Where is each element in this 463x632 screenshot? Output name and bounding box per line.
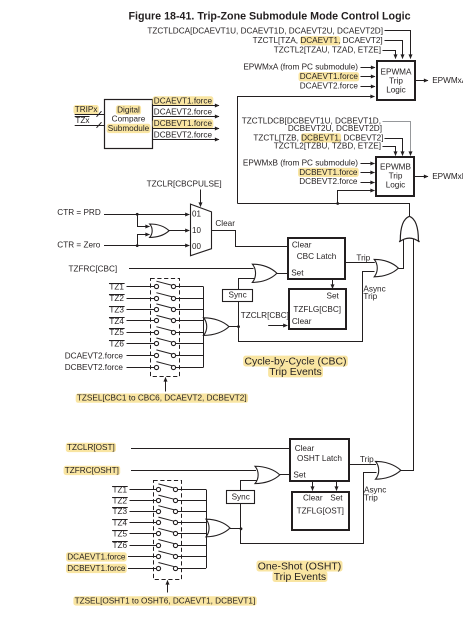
wire TZ3 to switch <box>130 511 157 513</box>
wire DCBEVT2.force input <box>361 182 375 184</box>
wire TZSEL select arrow OST <box>167 581 169 593</box>
EPWMB Trip Logic block <box>376 157 414 196</box>
wire OST OR input bus <box>206 490 208 569</box>
svg-text:One-Shot (OSHT): One-Shot (OSHT) <box>258 561 342 572</box>
svg-text:TZ4: TZ4 <box>109 317 124 326</box>
svg-text:Clear: Clear <box>292 317 312 326</box>
svg-text:EPWMA: EPWMA <box>381 67 412 76</box>
svg-text:Trip: Trip <box>360 455 374 464</box>
svg-text:EPWMxB (from PC submodule): EPWMxB (from PC submodule) <box>243 158 358 167</box>
svg-text:TZCTL2[TZAU, TZAD, ETZE]: TZCTL2[TZAU, TZAD, ETZE] <box>274 46 381 55</box>
net TRIPx label <box>74 105 99 114</box>
net DCAEVT1.force label <box>299 72 360 81</box>
wire DCBEVT2.force output <box>152 139 219 141</box>
or-gate CBC set <box>252 264 277 282</box>
wire TZ4 to switch <box>127 320 155 322</box>
net TZSEL[CBC] label <box>76 394 248 403</box>
mux CBC clear select <box>191 204 212 256</box>
svg-text:Trip Events: Trip Events <box>269 367 321 378</box>
svg-text:Clear: Clear <box>303 493 323 502</box>
junction CBC async branch <box>237 325 240 328</box>
switch OSHT7 <box>156 554 160 558</box>
switch CBC7 <box>154 353 158 357</box>
net DCAEVT1.force output label <box>153 96 214 105</box>
svg-text:Set: Set <box>293 470 306 479</box>
svg-text:Set: Set <box>330 493 343 502</box>
wire main OR output to trip logic <box>238 204 410 217</box>
wire switch CBC5 to OR bus <box>176 332 204 334</box>
switch bank CBC (dashed) <box>151 279 180 377</box>
wire EPWMxB input <box>361 163 375 165</box>
wire switch CBC1 to OR bus <box>176 286 204 288</box>
svg-text:Submodule: Submodule <box>108 124 150 133</box>
wire TZ6 to switch <box>130 545 157 547</box>
wire TZ3 to switch <box>127 309 155 311</box>
wire EPWMxA input <box>361 67 376 69</box>
wire set OR output to CBC latch set <box>277 273 288 275</box>
switch CBC1 <box>154 284 158 288</box>
svg-text:DCAEVT1.force: DCAEVT1.force <box>300 72 359 81</box>
Sync block OST <box>227 491 255 504</box>
or-gate OST async trip <box>376 461 401 479</box>
wire EPWMxA output <box>415 80 428 82</box>
svg-text:TZSEL[OSHT1 to OSHT6, DCAEVT1,: TZSEL[OSHT1 to OSHT6, DCAEVT1, DCBEVT1] <box>75 596 256 605</box>
or-gate CBC async trip <box>374 259 398 276</box>
wire TZ5 to switch <box>130 533 157 535</box>
wire sync to set OR input <box>239 279 255 290</box>
net TZCTL[TZA] label <box>300 36 340 45</box>
Digital Compare Submodule block <box>105 100 153 149</box>
svg-text:TZCLR[OST]: TZCLR[OST] <box>67 443 115 452</box>
svg-text:Logic: Logic <box>386 85 406 94</box>
svg-text:DCBEVT1.force: DCBEVT1.force <box>154 119 213 128</box>
svg-text:Trip: Trip <box>356 254 370 263</box>
svg-text:DCAEVT1.force: DCAEVT1.force <box>67 552 126 561</box>
wire OSHT latch to TZFLG clear <box>312 482 314 491</box>
net DCBEVT1.force OST input <box>66 564 127 573</box>
svg-text:TZx: TZx <box>75 116 89 125</box>
or-gate CBC switch combine <box>204 318 230 336</box>
svg-text:Trip Events: Trip Events <box>274 572 326 583</box>
wire TZCTL to EPWMA trip logic <box>385 41 403 59</box>
svg-text:EPWMxA (from PC submodule): EPWMxA (from PC submodule) <box>243 63 358 72</box>
net TZCTL[TZB] label <box>301 133 341 142</box>
switch OSHT5 <box>156 531 160 535</box>
Sync block CBC <box>223 290 253 302</box>
wire OR output to mux input 10 <box>169 230 189 232</box>
switch OSHT4 <box>156 520 160 524</box>
svg-text:TZSEL[CBC1 to CBC6, DCAEVT2, D: TZSEL[CBC1 to CBC6, DCAEVT2, DCBEVT2] <box>77 394 247 403</box>
wire CTR=PRD to mux input 01 <box>104 214 189 216</box>
svg-text:10: 10 <box>192 226 201 235</box>
junction CTR=PRD branch <box>136 213 139 216</box>
wire TZ6 to switch <box>127 343 155 345</box>
switch OSHT8 <box>156 566 160 570</box>
wire switch OR output <box>229 326 239 328</box>
wire EPWMxB output <box>415 176 429 178</box>
wire TZFRC[CBC] to set OR gate <box>129 268 254 270</box>
wire switch CBC4 to OR bus <box>176 320 204 322</box>
wire async trip into EPWMB <box>338 191 375 204</box>
wire DCBEVT1.force output <box>152 128 219 130</box>
svg-text:Sync: Sync <box>228 291 246 300</box>
wire switch CBC2 to OR bus <box>176 298 204 300</box>
svg-text:CTR = Zero: CTR = Zero <box>57 240 100 249</box>
svg-text:DCAEVT2.force: DCAEVT2.force <box>300 82 359 91</box>
svg-text:DCBEVT2.force: DCBEVT2.force <box>65 363 124 372</box>
svg-text:Clear: Clear <box>295 444 315 453</box>
svg-text:TZCTL2[TZBU, TZBD, ETZE]: TZCTL2[TZBU, TZBD, ETZE] <box>274 141 381 150</box>
svg-text:TZ5: TZ5 <box>109 328 124 337</box>
svg-text:Trip: Trip <box>363 292 377 301</box>
wire switch OSHT1 to OR bus <box>178 489 206 491</box>
wire TZCTLDCA to EPWMA trip logic <box>385 31 411 59</box>
wire DCBEVT2.force to switch <box>127 367 155 369</box>
svg-text:DCAEVT2.force: DCAEVT2.force <box>65 351 124 360</box>
svg-text:TZCLR[CBC]: TZCLR[CBC] <box>241 311 289 320</box>
svg-text:Trip: Trip <box>389 172 403 181</box>
svg-text:EPWMB: EPWMB <box>380 163 411 172</box>
svg-text:DCBEVT2.force: DCBEVT2.force <box>299 177 358 186</box>
wire DCAEVT1.force to switch <box>128 556 156 558</box>
wire TZx bus into digital compare <box>75 125 105 127</box>
svg-text:01: 01 <box>192 210 201 219</box>
wire CBC async path to async OR <box>239 272 375 342</box>
wire switch CBC7 to OR bus <box>176 355 204 357</box>
svg-text:TZFLG[OST]: TZFLG[OST] <box>297 506 344 515</box>
wire TZCTL to EPWMB trip logic <box>385 139 403 156</box>
wire switch CBC8 to OR bus <box>176 367 204 369</box>
wire OST switch OR output <box>230 528 241 530</box>
wire switch OSHT8 to OR bus <box>178 568 206 570</box>
svg-text:Digital: Digital <box>117 105 140 114</box>
switch CBC8 <box>154 365 158 369</box>
OSHT latch block <box>290 439 349 481</box>
net One-Shot caption <box>257 561 343 572</box>
svg-text:TZCLR[CBCPULSE]: TZCLR[CBCPULSE] <box>147 180 222 189</box>
wire TRIPx bus into digital compare <box>75 114 105 116</box>
wire CTR=Zero to OR gate <box>138 235 150 246</box>
switch CBC4 <box>154 318 158 322</box>
wire sync to OST set OR input <box>241 481 257 491</box>
wire OST async path to async OR <box>241 473 377 544</box>
wire DCAEVT1.force input <box>361 76 376 78</box>
svg-text:00: 00 <box>192 242 201 251</box>
TZFLG[CBC] flag block <box>289 289 346 329</box>
wire sync input from OST switch OR <box>240 503 242 528</box>
or-gate OST set <box>255 466 280 483</box>
wire OSHT latch to TZFLG set <box>336 482 338 491</box>
junction CTR=Zero branch <box>136 244 139 247</box>
svg-text:Clear: Clear <box>215 219 235 228</box>
net TZSEL[OSHT] label <box>73 596 256 605</box>
wire switch OSHT6 to OR bus <box>178 545 206 547</box>
wire DCAEVT2.force to switch <box>127 355 155 357</box>
svg-text:TZFRC[CBC]: TZFRC[CBC] <box>69 264 118 273</box>
wire CBC latch to TZFLG set <box>332 280 334 289</box>
net DCBEVT1.force output label <box>153 119 214 128</box>
switch CBC6 <box>154 341 158 345</box>
wire sync input from switch OR <box>238 301 240 326</box>
svg-text:DCAEVT1.force: DCAEVT1.force <box>154 96 213 105</box>
svg-text:Figure 18-41. Trip-Zone Submod: Figure 18-41. Trip-Zone Submodule Mode C… <box>128 11 410 23</box>
wire mux select <box>200 190 202 207</box>
net TZCLR[OST] label <box>66 443 116 452</box>
wire TZCTL2 to EPWMA trip logic <box>383 51 396 59</box>
wire TZ2 to switch <box>127 298 155 300</box>
svg-text:Clear: Clear <box>292 241 312 250</box>
switch OSHT6 <box>156 543 160 547</box>
svg-text:TZ3: TZ3 <box>112 507 127 516</box>
switch bank OST (dashed) <box>154 481 182 580</box>
svg-text:TRIPx: TRIPx <box>75 105 98 114</box>
wire switch OSHT4 to OR bus <box>178 522 206 524</box>
wire TZCLR[CBC] into TZFLG clear <box>268 325 287 327</box>
wire TZCTL2 to EPWMB trip logic <box>383 147 396 156</box>
svg-text:DCAEVT2.force: DCAEVT2.force <box>154 108 213 117</box>
wire CBC async OR to main OR <box>399 239 404 269</box>
wire switch OSHT2 to OR bus <box>178 500 206 502</box>
wire DCAEVT1.force output <box>152 105 219 107</box>
or-gate OST switch combine <box>206 519 230 537</box>
svg-text:TZ6: TZ6 <box>112 541 127 550</box>
wire switch OSHT5 to OR bus <box>178 533 206 535</box>
bus slash TZx <box>97 122 102 128</box>
wire switch CBC6 to OR bus <box>176 343 204 345</box>
bus slash TRIPx <box>97 111 102 117</box>
wire TZSEL select arrow CBC <box>165 378 167 392</box>
svg-text:TZCTL[TZA, DCAEVT1, DCAEVT2]: TZCTL[TZA, DCAEVT1, DCAEVT2] <box>253 36 383 45</box>
svg-text:DCBEVT1.force: DCBEVT1.force <box>299 168 358 177</box>
wire CTR=Zero to mux input 00 <box>104 245 189 247</box>
svg-text:OSHT Latch: OSHT Latch <box>297 454 342 463</box>
wire CBC OR input bus <box>203 287 205 367</box>
wire switch OSHT7 to OR bus <box>178 556 206 558</box>
switch OSHT1 <box>156 487 160 491</box>
wire set OR output to OSHT latch set <box>280 474 291 476</box>
wire TZ1 to switch <box>127 286 155 288</box>
svg-text:DCBEVT2.force: DCBEVT2.force <box>154 130 213 139</box>
svg-text:Trip: Trip <box>389 76 403 85</box>
svg-text:EPWMxB: EPWMxB <box>432 172 463 181</box>
wire mux output to CBC latch clear <box>212 231 289 247</box>
svg-text:Set: Set <box>327 291 340 300</box>
net TZFRC[OST] label <box>64 466 121 475</box>
wire OSHT latch trip output <box>349 464 376 466</box>
wire CTR=PRD to OR gate <box>138 215 150 227</box>
net DCAEVT1.force OST input <box>66 552 127 561</box>
or-gate CTR combine <box>150 224 169 237</box>
wire TZFRC[OST] to set OR gate <box>131 470 256 472</box>
wire TZ2 to switch <box>130 500 157 502</box>
or-gate main trip combine <box>399 216 419 242</box>
wire TZ1 to switch <box>130 489 157 491</box>
CBC latch block <box>288 238 345 279</box>
svg-text:Set: Set <box>291 269 304 278</box>
wire DCAEVT2.force output <box>152 116 219 118</box>
wire async trip into EPWMA <box>238 97 375 204</box>
svg-text:TZFLG[CBC]: TZFLG[CBC] <box>293 305 341 314</box>
switch OSHT3 <box>156 509 160 513</box>
EPWMA Trip Logic block <box>377 61 415 100</box>
svg-text:Compare: Compare <box>112 115 146 124</box>
svg-text:Sync: Sync <box>232 492 250 501</box>
wire TZ4 to switch <box>130 522 157 524</box>
svg-text:DCBEVT1.force: DCBEVT1.force <box>67 564 126 573</box>
svg-text:DCBEVT2U, DCBEVT2D]: DCBEVT2U, DCBEVT2D] <box>288 124 382 133</box>
wire CBC latch trip output <box>345 262 375 264</box>
wire TZ5 to switch <box>127 332 155 334</box>
svg-text:Cycle-by-Cycle (CBC): Cycle-by-Cycle (CBC) <box>244 356 346 367</box>
svg-text:Trip: Trip <box>364 493 378 502</box>
wire switch OSHT3 to OR bus <box>178 511 206 513</box>
wire switch CBC3 to OR bus <box>176 309 204 311</box>
svg-text:Logic: Logic <box>386 181 406 190</box>
wire TZCLR[OST] to OSHT latch clear <box>131 448 290 450</box>
junction OST async branch <box>240 527 243 530</box>
net Cycle-by-Cycle caption <box>243 356 348 367</box>
svg-text:CBC Latch: CBC Latch <box>297 252 337 261</box>
svg-text:TZ2: TZ2 <box>109 294 124 303</box>
switch CBC5 <box>154 330 158 334</box>
TZFLG[OST] flag block <box>292 492 349 530</box>
wire DCBEVT1.force to switch <box>128 568 156 570</box>
svg-text:TZFRC[OSHT]: TZFRC[OSHT] <box>65 466 119 475</box>
svg-text:CTR = PRD: CTR = PRD <box>57 208 101 217</box>
svg-text:EPWMxA: EPWMxA <box>432 76 463 85</box>
wire TZCTLDCB to EPWMB trip logic (gray) <box>383 122 411 129</box>
svg-text:TZCTLDCA[DCAEVT1U, DCAEVT1D, D: TZCTLDCA[DCAEVT1U, DCAEVT1D, DCAEVT2U, D… <box>147 26 383 35</box>
wire OST async OR to main OR riser <box>401 239 414 471</box>
wire DCAEVT2.force input <box>361 86 376 88</box>
switch CBC2 <box>154 296 158 300</box>
switch OSHT2 <box>156 498 160 502</box>
junction async trip EPWMB <box>336 202 339 205</box>
svg-text:TZ5: TZ5 <box>112 530 127 539</box>
wire DCBEVT1.force input <box>361 172 375 174</box>
switch CBC3 <box>154 307 158 311</box>
net DCBEVT1.force label <box>298 168 359 177</box>
